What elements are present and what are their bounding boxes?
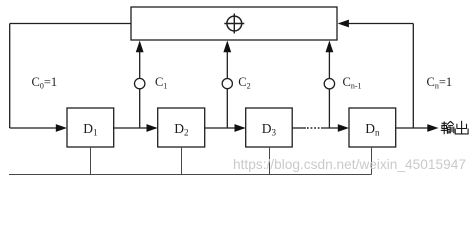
dotted wire continuation	[307, 127, 321, 129]
wire D1 to D2	[114, 127, 148, 129]
glyph shu (first char of output)	[441, 121, 454, 134]
arrowhead into D3	[235, 124, 246, 132]
svg-text:C0=1: C0=1	[32, 75, 58, 91]
wire feedback left vertical	[9, 24, 11, 129]
arrowhead tap Cn-1 into xor block	[326, 41, 334, 53]
arrowhead into D2	[147, 124, 158, 132]
svg-text:Dn: Dn	[365, 121, 380, 138]
tap circle C1	[135, 78, 145, 88]
wire feedback left horizontal	[10, 23, 131, 25]
flip-flop D1	[67, 108, 114, 147]
wire dots to Dn	[321, 127, 339, 129]
svg-text:Cn-1: Cn-1	[343, 75, 362, 91]
tap circle C2	[222, 79, 232, 89]
wire D2 to D3	[205, 127, 236, 129]
arrowhead output	[427, 124, 438, 132]
wire feedback right vertical	[412, 24, 414, 129]
tap wire C1 upper	[139, 52, 141, 79]
tap wire C1 lower	[139, 89, 141, 128]
wire into D1	[10, 127, 57, 129]
flip-flop D2	[158, 108, 205, 147]
tap circle Cn-1	[324, 79, 334, 89]
arrowhead tap C2 into xor block	[223, 41, 231, 53]
xor summing block U1	[131, 7, 337, 40]
clock stub Dn	[371, 147, 373, 175]
svg-text:C1: C1	[155, 75, 167, 91]
svg-text:D3: D3	[262, 121, 277, 138]
flip-flop D3	[246, 108, 293, 147]
xor symbol	[224, 14, 244, 34]
svg-text:https://blog.csdn.net/weixin_4: https://blog.csdn.net/weixin_45015947	[233, 157, 466, 172]
clock bus wire	[9, 174, 372, 176]
svg-text:D1: D1	[83, 121, 97, 138]
tap wire C2 upper	[226, 52, 228, 79]
arrowhead tap C1 into xor block	[136, 41, 144, 53]
tap wire C2 lower	[226, 89, 228, 128]
arrowhead into Dn	[338, 124, 349, 132]
wire Dn to output	[396, 127, 429, 129]
tap wire Cn-1 upper	[328, 52, 330, 79]
clock stub D2	[181, 147, 183, 175]
clock stub D3	[269, 147, 271, 175]
svg-text:C2: C2	[238, 75, 250, 91]
wire D3 to dots	[292, 127, 306, 129]
label shuchu (output) drawn glyphs	[441, 121, 468, 134]
tap wire Cn-1 lower	[328, 89, 330, 128]
glyph chu (second char of output)	[455, 121, 468, 134]
clock stub D1	[90, 147, 92, 175]
wire feedback right horizontal	[348, 23, 413, 25]
arrowhead feedback into xor block right	[338, 20, 349, 28]
arrowhead into D1	[56, 124, 67, 132]
svg-text:Cn=1: Cn=1	[427, 75, 453, 91]
svg-text:D2: D2	[174, 121, 188, 138]
flip-flop Dn	[349, 108, 396, 147]
